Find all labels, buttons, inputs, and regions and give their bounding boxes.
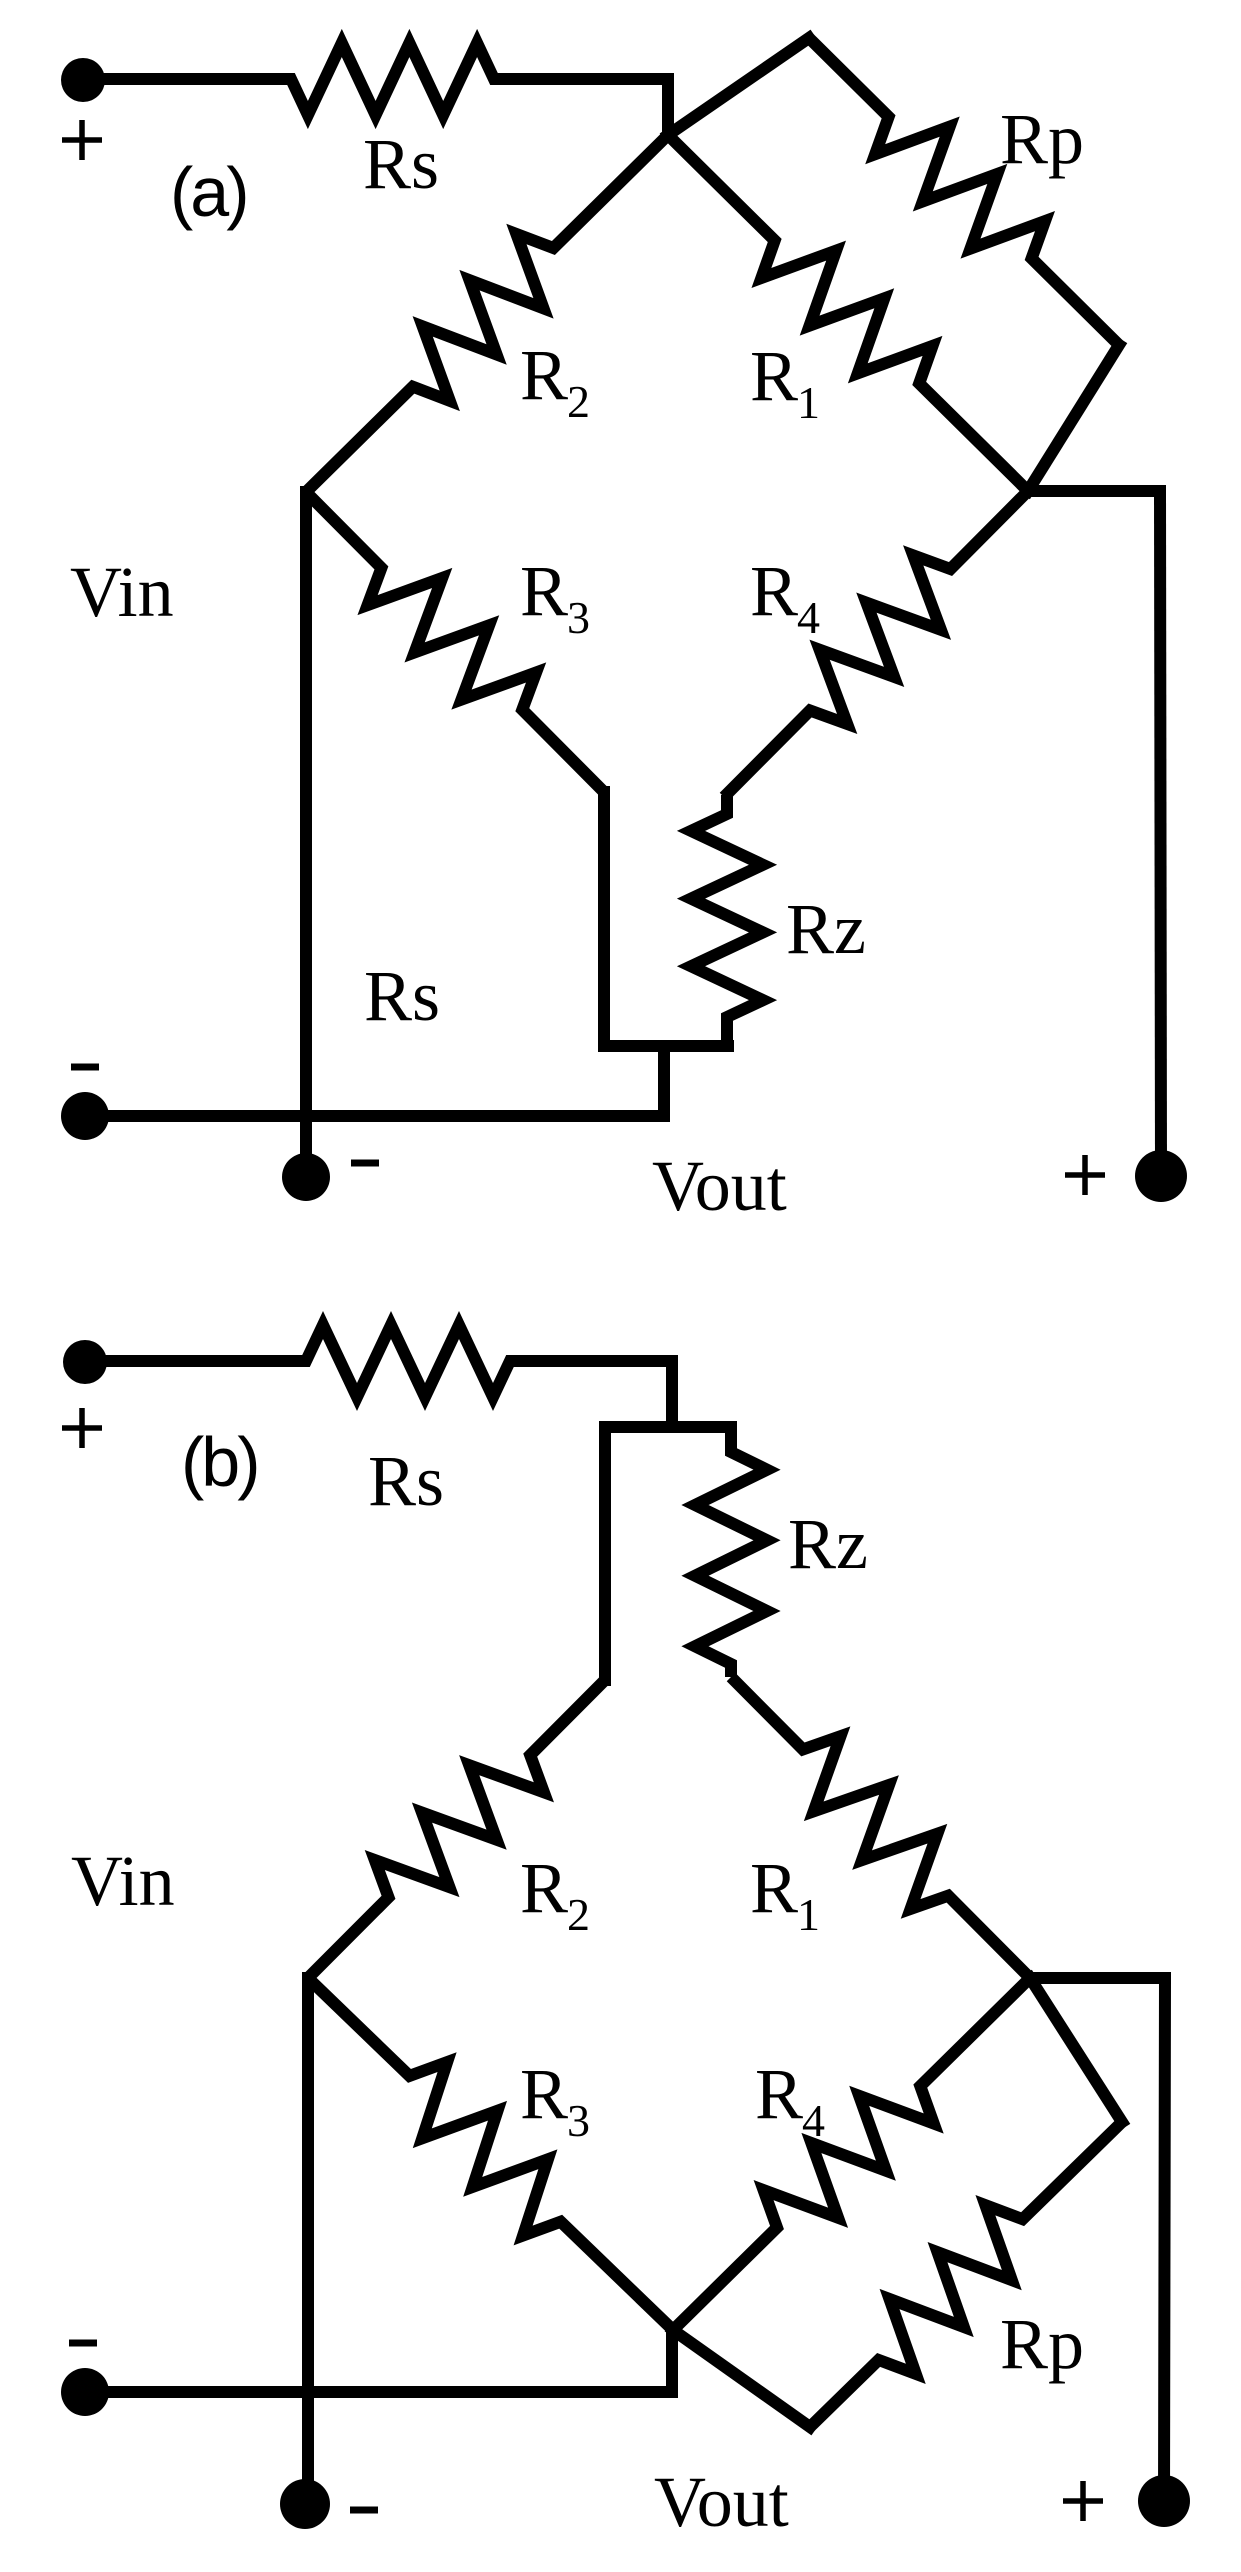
resistor R1 (b) xyxy=(731,1677,1030,1978)
svg-text:(b): (b) xyxy=(181,1423,258,1501)
svg-text:Rs: Rs xyxy=(364,956,440,1036)
wire Rs to split node (b) xyxy=(666,1361,678,1427)
wire left rail (a) xyxy=(300,492,312,1177)
plus sign Vin (b) xyxy=(62,1408,102,1448)
svg-text:Vout: Vout xyxy=(652,1146,787,1226)
wire bottom node to Rp (b) xyxy=(673,2330,810,2427)
svg-text:Rs: Rs xyxy=(363,124,439,204)
resistor R4 (b) xyxy=(673,1978,1030,2330)
svg-text:2: 2 xyxy=(567,376,590,427)
wire left branch down (b) xyxy=(599,1427,611,1680)
minus sign Vin (a) xyxy=(71,1064,99,1071)
svg-text:2: 2 xyxy=(567,1889,590,1940)
wire Rp to right node (a) xyxy=(1028,345,1119,491)
svg-text:1: 1 xyxy=(797,1889,820,1940)
node Vin+ terminal (a) xyxy=(61,58,105,102)
node Vout+ terminal (a) xyxy=(1135,1150,1187,1202)
resistor R3 (b) xyxy=(308,1978,673,2330)
svg-text:4: 4 xyxy=(797,592,820,643)
wire Vout tap (a) xyxy=(658,1046,670,1116)
wire right node to rail (b) xyxy=(1030,1972,1165,1984)
svg-text:4: 4 xyxy=(802,2095,825,2146)
node Vin- terminal (a) xyxy=(61,1092,109,1140)
wire bridge bottom bus (a) xyxy=(604,1040,728,1052)
svg-text:(a): (a) xyxy=(170,153,247,231)
wire Rs to bridge top node (a) xyxy=(662,79,674,135)
wire Rp to right node (b) xyxy=(1030,1978,1122,2122)
node Vin- terminal (b) xyxy=(61,2368,109,2416)
svg-text:3: 3 xyxy=(567,592,590,643)
svg-text:Rp: Rp xyxy=(1000,2304,1084,2384)
svg-text:R: R xyxy=(750,1848,798,1928)
svg-text:1: 1 xyxy=(797,377,820,428)
wire split bus (b) xyxy=(605,1421,731,1433)
plus sign Vout (a) xyxy=(1065,1155,1105,1195)
svg-text:R: R xyxy=(750,551,798,631)
plus sign Vin (a) xyxy=(62,120,102,160)
minus sign Vin (b) xyxy=(69,2340,97,2347)
resistor R1 (a) xyxy=(668,135,1028,491)
resistor Rp (a) xyxy=(809,38,1119,345)
resistor Rp (b) xyxy=(810,2122,1122,2427)
resistor Rs (b) xyxy=(85,1325,672,1397)
wire left rail (b) xyxy=(302,1978,314,2504)
node Vout- terminal (a) xyxy=(282,1153,330,1201)
node Vout- terminal (b) xyxy=(280,2479,330,2529)
svg-text:Rs: Rs xyxy=(368,1441,444,1521)
wire top node to Rp (a) xyxy=(668,38,809,135)
svg-text:Vin: Vin xyxy=(71,1841,175,1921)
resistor Rz (b) xyxy=(695,1427,767,1677)
svg-text:Rz: Rz xyxy=(786,889,866,969)
resistor Rz (a) xyxy=(691,795,763,1046)
resistor R4 (a) xyxy=(724,491,1028,797)
wire R3 to bridge bottom (a) xyxy=(598,792,610,1046)
minus sign Vout- (b) xyxy=(350,2507,378,2514)
svg-text:R: R xyxy=(750,336,798,416)
svg-text:Rp: Rp xyxy=(1000,99,1084,179)
svg-text:3: 3 xyxy=(567,2095,590,2146)
svg-text:Vin: Vin xyxy=(70,552,174,632)
svg-text:Rz: Rz xyxy=(788,1504,868,1584)
node Vout+ terminal (b) xyxy=(1138,2475,1190,2527)
wire right rail (b) xyxy=(1164,1978,1165,2501)
wire Vout rail (a) xyxy=(85,1110,664,1122)
wire Vout rail (b) xyxy=(85,2386,672,2398)
svg-text:R: R xyxy=(520,2054,568,2134)
resistor R2 (b) xyxy=(308,1680,605,1978)
node Vin+ terminal (b) xyxy=(63,1340,107,1384)
svg-text:R: R xyxy=(520,335,568,415)
resistor Rs (a) xyxy=(83,43,668,115)
svg-text:R: R xyxy=(520,551,568,631)
resistor R2 (a) xyxy=(306,135,668,492)
wire Vout tap (b) xyxy=(666,2330,678,2392)
svg-text:R: R xyxy=(520,1848,568,1928)
plus sign Vout (b) xyxy=(1063,2481,1103,2521)
resistor R3 (a) xyxy=(306,492,604,792)
svg-text:Vout: Vout xyxy=(654,2462,789,2542)
minus sign Vout- (a) xyxy=(351,1160,379,1167)
wire right node to rail (a) xyxy=(1028,485,1160,497)
svg-text:R: R xyxy=(755,2054,803,2134)
wire right rail (a) xyxy=(1160,491,1161,1176)
